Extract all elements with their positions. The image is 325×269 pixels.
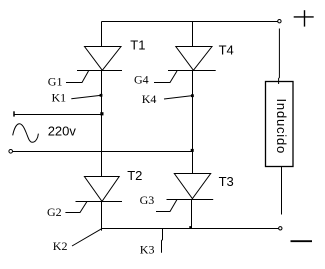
node junction left branch with AC phase A [100, 112, 103, 115]
AC source V1 sine symbol [13, 124, 39, 143]
node negative output terminal [279, 227, 282, 230]
cathode K3 pointer [162, 229, 163, 253]
svg-text:Inducido: Inducido [274, 99, 289, 155]
terminal tick AC phase A [13, 111, 15, 116]
cathode K4 pointer [164, 96, 192, 99]
wire right branch vertical [192, 71, 194, 174]
svg-text:K2: K2 [53, 239, 68, 253]
wire AC phase A [14, 114, 102, 116]
wire AC phase B [13, 151, 193, 153]
thyristor T4 cathode bar [168, 70, 216, 72]
wire left branch vertical [101, 71, 103, 177]
thyristor T4 triangle [176, 47, 212, 71]
plus polarity symbol [294, 10, 314, 26]
svg-text:T2: T2 [127, 168, 142, 183]
wire positive terminal to Inducido [278, 29, 281, 85]
thyristor T1 triangle [85, 47, 122, 71]
wire T2 cathode to bottom bus [101, 202, 103, 231]
minus polarity symbol [291, 240, 313, 242]
cathode K1 pointer [71, 95, 101, 99]
node K1 junction dot [100, 94, 103, 97]
svg-text:K3: K3 [140, 243, 155, 257]
cathode K2 pointer [72, 229, 102, 246]
node K4 junction dot [191, 94, 194, 97]
svg-text:G1: G1 [48, 75, 63, 89]
svg-text:K1: K1 [52, 91, 67, 105]
svg-text:T3: T3 [219, 174, 234, 189]
svg-text:T1: T1 [130, 38, 145, 53]
node positive output terminal [278, 20, 281, 23]
gate G2 lead [65, 202, 87, 213]
gate G1 lead [66, 71, 89, 83]
node AC phase B terminal circle [9, 150, 13, 154]
thyristor T3 cathode bar [167, 199, 214, 201]
gate G3 lead [156, 200, 177, 212]
node T3 bottom junction dot [189, 226, 192, 229]
wire T3 cathode to bottom bus [191, 200, 193, 229]
thyristor T1 cathode bar [77, 70, 122, 72]
thyristor T4 anode wire [192, 22, 194, 47]
svg-text:G2: G2 [47, 205, 62, 219]
node junction right branch with AC phase B [191, 149, 194, 152]
thyristor T3 triangle [174, 174, 210, 199]
thyristor T2 cathode bar [76, 201, 123, 203]
load Inducido box U1 [266, 82, 294, 167]
svg-text:G3: G3 [140, 193, 155, 207]
wire top bus [102, 21, 278, 23]
svg-text:T4: T4 [219, 43, 234, 58]
gate G4 lead [154, 71, 177, 83]
wire Inducido bottom lead [281, 167, 283, 215]
wire bottom bus [102, 228, 279, 230]
svg-text:G4: G4 [134, 73, 149, 87]
svg-text:K4: K4 [142, 92, 157, 106]
thyristor T1 anode wire [101, 22, 103, 47]
thyristor T2 triangle [84, 177, 119, 202]
svg-text:220v: 220v [48, 124, 77, 139]
